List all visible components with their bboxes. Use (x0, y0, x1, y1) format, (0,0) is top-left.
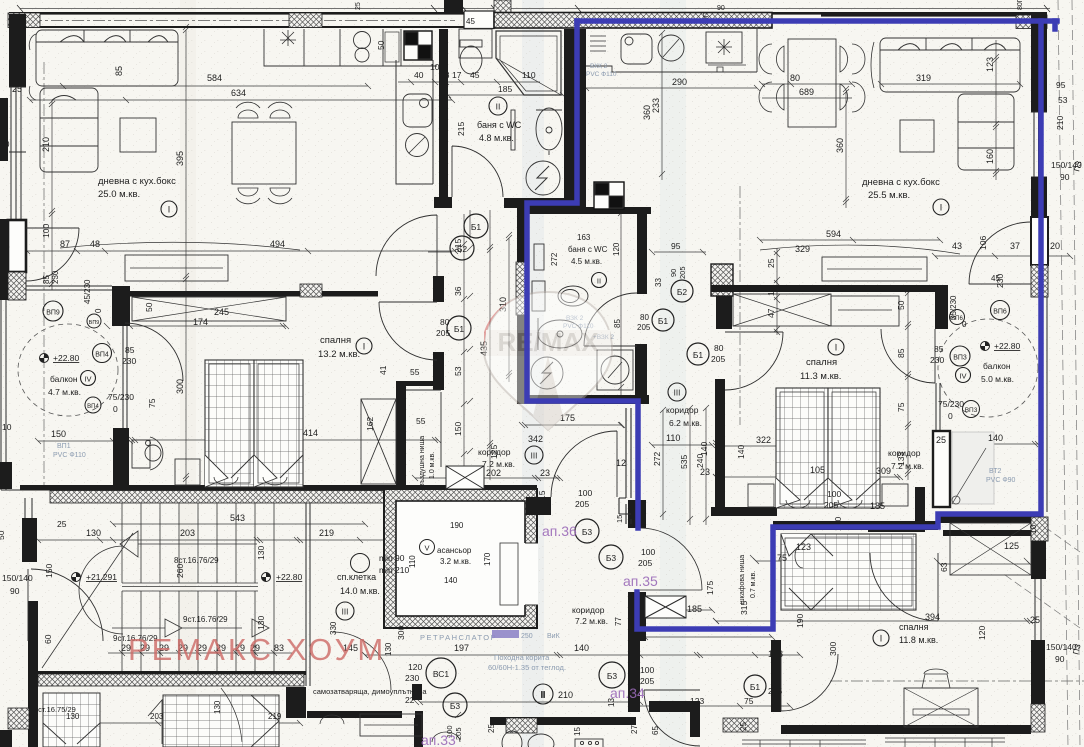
bathroom2 washer (531, 357, 563, 389)
bedroom11.3 balcony door (881, 329, 935, 383)
axis dashdot x740 (739, 186, 741, 425)
ap35 bathroom2 toilet (558, 286, 588, 306)
wall stub below ap34 entry (690, 711, 700, 737)
top outer dim line (20, 8, 1050, 10)
svg-text:205: 205 (637, 323, 651, 332)
chimney shaft 45 in top wall (464, 11, 494, 29)
svg-text:360: 360 (642, 105, 652, 120)
svg-text:min 210: min 210 (379, 565, 410, 575)
svg-text:75: 75 (777, 553, 787, 563)
left kitchen stove circles (354, 32, 371, 49)
vertical x846 360 (843, 89, 849, 208)
left kitchen side counter (396, 60, 433, 184)
svg-text:0: 0 (94, 308, 103, 313)
bedroom11.3 bottom wall left part (711, 507, 777, 516)
svg-text:0.7 м.кв.: 0.7 м.кв. (750, 571, 757, 598)
ap33 wall bottom left horizontal (307, 711, 402, 718)
svg-text:IV: IV (959, 372, 966, 381)
svg-text:PVC Ф90: PVC Ф90 (986, 477, 1016, 484)
bathroom2 bottom wall (517, 395, 649, 404)
svg-text:100: 100 (640, 665, 654, 675)
right wall hatch block y517 (1031, 517, 1048, 541)
ap33/34 bath top wall (490, 717, 636, 725)
top wall hatch block x300 (289, 13, 322, 28)
left edge block y462 (0, 462, 12, 489)
svg-text:дневна с кух.бокс: дневна с кух.бокс (862, 177, 940, 188)
right TV cabinet living (822, 257, 927, 281)
svg-text:14.0 м.кв.: 14.0 м.кв. (340, 586, 380, 596)
ap33 bath wall hatch (506, 718, 537, 733)
bathroom1 shower cabin (496, 31, 561, 95)
elevator inner rect (500, 543, 518, 605)
corridor right wall hatch pier (bedroom NW) (711, 264, 733, 296)
svg-text:95: 95 (671, 241, 681, 251)
ap34 desk (904, 688, 978, 727)
vertical x908 chain (905, 290, 911, 480)
svg-text:36: 36 (453, 286, 463, 296)
bathroom2 left wall lower (517, 315, 525, 404)
ap36 corridor wall notch (526, 497, 551, 515)
svg-text:ВиК: ВиК (547, 633, 561, 640)
svg-text:110: 110 (522, 70, 536, 80)
svg-text:15: 15 (537, 490, 547, 500)
svg-text:асансьор: асансьор (437, 546, 472, 555)
stairwell bottom wall (38, 671, 306, 675)
ap34 corridor wall vertical (628, 640, 640, 712)
lower floor door arc bottom left (221, 688, 242, 742)
svg-text:10: 10 (1028, 524, 1038, 534)
svg-text:75: 75 (744, 696, 754, 706)
vertical dims right corridor x663 x690 x706 (663, 408, 706, 525)
ap35 kitchen counter run (586, 29, 757, 72)
left coffee table (120, 118, 156, 152)
balcony left rail (1, 300, 20, 490)
svg-text:III: III (342, 608, 349, 617)
svg-text:100: 100 (41, 224, 51, 238)
right wall door jamb box (1031, 217, 1048, 265)
svg-text:185: 185 (498, 84, 512, 94)
air niche wall horizontal (396, 381, 434, 386)
svg-text:395: 395 (175, 151, 185, 166)
ap34 bedroom left wall (771, 640, 781, 712)
svg-text:41: 41 (378, 365, 388, 375)
svg-text:45: 45 (466, 17, 475, 26)
stairs 29 row line (108, 650, 292, 656)
svg-text:II: II (496, 102, 501, 112)
svg-text:25: 25 (936, 435, 946, 445)
svg-text:сп.клетка: сп.клетка (337, 572, 376, 582)
balcony left dashed ellipse (18, 324, 118, 416)
air niche duct x-box (446, 466, 484, 489)
svg-text:III: III (531, 452, 538, 461)
left kitchen stove checkered (404, 31, 432, 60)
svg-text:4.5 м.кв.: 4.5 м.кв. (571, 257, 602, 266)
svg-text:ВП4: ВП4 (87, 404, 99, 410)
dim 105-etc right corridor (787, 473, 871, 479)
ap33 door bottom (333, 632, 391, 690)
svg-text:110: 110 (666, 433, 680, 443)
living/bedroom wall continues to door (322, 291, 378, 297)
left wardrobe 245 (132, 297, 286, 321)
svg-text:80П: 80П (1017, 0, 1024, 10)
svg-text:V: V (424, 544, 429, 553)
bedroom11.3 bottom wall right part under blue (773, 521, 938, 530)
stairs upper flight treads (122, 503, 274, 671)
svg-text:ВП3: ВП3 (965, 407, 978, 414)
bathroom1 toilet (460, 46, 482, 74)
svg-text:90: 90 (1060, 172, 1070, 182)
vertical x509 310 (506, 235, 512, 382)
svg-text:203: 203 (180, 528, 195, 538)
right wall window (1031, 112, 1047, 177)
svg-text:3.2 м.кв.: 3.2 м.кв. (440, 557, 471, 566)
right wall window lower (1035, 579, 1041, 640)
ap34 right wall (1031, 640, 1045, 725)
svg-text:самозатваряща, димоуплътнена: самозатваряща, димоуплътнена (313, 687, 427, 696)
left kitchen star dishwasher (280, 30, 296, 46)
stair arrow down (112, 619, 242, 637)
svg-text:ВП1: ВП1 (57, 443, 71, 450)
svg-text:20: 20 (1050, 241, 1060, 251)
svg-text:272: 272 (652, 452, 662, 466)
svg-text:45: 45 (470, 70, 480, 80)
min labels stairs (351, 554, 370, 573)
svg-text:205: 205 (768, 686, 782, 696)
svg-text:ВП9: ВП9 (46, 310, 60, 317)
svg-text:53: 53 (453, 366, 463, 376)
svg-text:RE/MAX: RE/MAX (497, 327, 599, 357)
dim 123-75 lower right (753, 558, 915, 564)
svg-text:IV: IV (84, 375, 91, 384)
dim 185 y95 (445, 92, 566, 98)
ap33 bed pillow (148, 700, 162, 744)
svg-text:47: 47 (766, 308, 776, 318)
dim 185 right low (649, 607, 715, 613)
circle I living left (161, 201, 177, 217)
ap33 bed vertical (43, 693, 100, 747)
vertical x490 435 (487, 210, 493, 480)
svg-text:360: 360 (835, 138, 845, 153)
door circles (464, 214, 488, 238)
bathroom2 left wall (517, 207, 525, 317)
svg-text:272: 272 (550, 252, 559, 266)
svg-text:Б3: Б3 (606, 553, 617, 563)
top wall inner edge left section (24, 26, 464, 28)
dim 80-689 right table (759, 81, 855, 98)
svg-text:Б1: Б1 (454, 324, 465, 334)
svg-text:коридор: коридор (666, 405, 699, 415)
svg-text:215: 215 (456, 122, 466, 136)
svg-text:535: 535 (679, 455, 689, 469)
svg-text:25: 25 (355, 2, 362, 10)
vent circles right balcony (991, 301, 1010, 320)
svg-text:90: 90 (10, 586, 20, 596)
living/bedroom wall pier left (112, 286, 130, 326)
elevator labels (420, 540, 435, 555)
svg-text:203: 203 (150, 712, 164, 721)
svg-text:40: 40 (0, 139, 10, 149)
svg-text:205: 205 (711, 354, 725, 364)
svg-text:80: 80 (790, 73, 800, 83)
svg-text:+22.80: +22.80 (53, 353, 80, 363)
svg-text:22: 22 (405, 695, 415, 705)
corridor right dims y446 (649, 442, 715, 448)
neighbor wall bar upper left edge (0, 98, 8, 161)
svg-text:РЕТРАНСЛАТОР: РЕТРАНСЛАТОР (420, 633, 497, 642)
svg-text:48: 48 (90, 239, 100, 249)
svg-text:205: 205 (678, 266, 687, 279)
svg-text:шкафова ниша: шкафова ниша (739, 555, 746, 604)
left beds (205, 360, 303, 487)
svg-text:PVC Ф110: PVC Ф110 (53, 452, 86, 459)
fire door right stairhall (870, 553, 938, 621)
right wardrobe X (733, 294, 831, 326)
dim 140 right balcony (955, 441, 1041, 447)
svg-text:40: 40 (414, 70, 424, 80)
svg-text:230: 230 (405, 673, 419, 683)
left kitchen washer (406, 134, 429, 157)
svg-text:219: 219 (319, 528, 334, 538)
svg-text:90: 90 (1055, 654, 1065, 664)
dim 43-37-20 balcony top (932, 253, 1073, 259)
svg-text:100: 100 (641, 547, 655, 557)
bottom wall hatch strip (50, 491, 527, 504)
svg-text:0: 0 (948, 411, 953, 421)
svg-text:60/60Н-1.35 от теглод.: 60/60Н-1.35 от теглод. (488, 663, 566, 672)
balcony top edge lines (26, 286, 112, 290)
vent circles left balcony (43, 301, 63, 321)
svg-text:дневна с кух.бокс: дневна с кух.бокс (98, 176, 176, 187)
stairs lower flight treads (122, 591, 255, 671)
svg-text:230: 230 (51, 270, 60, 284)
dim 584 line (60, 83, 371, 89)
right dresser (831, 296, 899, 326)
svg-text:120: 120 (612, 242, 621, 256)
svg-text:балкон: балкон (50, 374, 78, 384)
svg-text:I: I (363, 342, 366, 352)
svg-text:85: 85 (125, 345, 135, 355)
svg-text:Б1: Б1 (658, 316, 669, 326)
svg-text:25: 25 (739, 722, 748, 731)
balcony window left thin lines (123, 325, 127, 428)
svg-text:130: 130 (256, 616, 266, 630)
stair arrow up (120, 531, 257, 557)
svg-text:РЕМАКС ХОУМ: РЕМАКС ХОУМ (128, 632, 386, 667)
svg-text:спалня: спалня (320, 335, 351, 346)
air niche label (419, 436, 426, 487)
bottom wall of upper apartments (20, 485, 537, 491)
bedroom left wall pier (716, 296, 732, 329)
svg-text:25: 25 (57, 519, 67, 529)
svg-text:205: 205 (436, 328, 450, 338)
svg-text:ВП3: ВП3 (953, 355, 967, 362)
scan streak 2 (522, 0, 544, 747)
dim 290 right kitchen (583, 85, 760, 91)
stairs winder half-circle (79, 546, 123, 634)
svg-text:4.8 м.кв.: 4.8 м.кв. (479, 133, 514, 143)
svg-text:77: 77 (614, 617, 623, 626)
svg-text:I: I (835, 343, 838, 353)
svg-text:37: 37 (1010, 241, 1020, 251)
ap34 bed (781, 534, 916, 610)
svg-text:300: 300 (828, 642, 838, 656)
right dining table (788, 39, 836, 127)
svg-text:II: II (541, 691, 545, 700)
svg-text:50: 50 (144, 302, 154, 312)
svg-text:баня с WC: баня с WC (477, 120, 522, 130)
svg-text:17: 17 (452, 70, 462, 80)
ap34 wardrobe X (950, 523, 1031, 575)
living25.5 balcony door right wall (969, 222, 1031, 284)
ap33 bath oval (528, 734, 554, 747)
svg-text:140: 140 (699, 442, 709, 456)
bathroom2 right wall lower pier (635, 344, 647, 404)
svg-text:543: 543 (230, 513, 245, 523)
balcony right dashed ellipse (938, 319, 1038, 417)
svg-text:75/230: 75/230 (938, 399, 964, 409)
svg-text:163: 163 (577, 233, 591, 242)
svg-text:170: 170 (483, 552, 492, 566)
elevator shaft walls hatched ring (384, 489, 537, 628)
svg-text:150/140: 150/140 (2, 573, 33, 583)
ap34 bedroom bottom wall (781, 725, 1031, 734)
elevator door gap (524, 543, 538, 605)
dim 394 lower right (713, 618, 1033, 624)
ap33 stove dots (575, 739, 603, 747)
left sofa chaise (40, 88, 98, 172)
top wall hatched section center (494, 13, 772, 29)
air niche thin edges (406, 390, 441, 467)
svg-text:Б1: Б1 (693, 350, 704, 360)
svg-text:ап.33: ап.33 (421, 732, 456, 747)
svg-text:230: 230 (122, 356, 136, 366)
bottom left corner block (0, 730, 12, 747)
svg-text:309: 309 (876, 466, 891, 476)
svg-text:634: 634 (231, 88, 246, 98)
bedroom wall stub near washbasin (113, 428, 129, 487)
svg-text:15: 15 (573, 727, 582, 736)
svg-text:13: 13 (440, 70, 450, 80)
top wall centerline (30, 20, 455, 22)
stairwell bottom wall corner (286, 687, 306, 718)
top edge block left of shaft (444, 0, 463, 14)
svg-text:25: 25 (115, 429, 125, 439)
ap34 bottom hatch left (723, 718, 758, 732)
ap33 bed horizontal (163, 695, 279, 747)
svg-text:300: 300 (175, 379, 185, 394)
svg-text:Походна корита: Походна корита (494, 653, 550, 662)
svg-text:105: 105 (810, 465, 825, 475)
stairwell left wall lower (28, 601, 38, 747)
svg-text:23: 23 (540, 468, 550, 478)
dashed diagonals bottom right (1005, 575, 1080, 628)
ap35 entry wall above door (628, 500, 646, 528)
svg-text:10: 10 (430, 62, 440, 72)
svg-text:210: 210 (558, 690, 573, 700)
svg-text:Б3: Б3 (582, 527, 593, 537)
neighbor wall bar lower left edge (0, 219, 8, 300)
svg-text:215: 215 (453, 239, 463, 253)
bathroom1 door (452, 146, 503, 197)
svg-text:25: 25 (1030, 615, 1040, 625)
right corridor thin partition (619, 408, 631, 524)
svg-text:11.8 м.кв.: 11.8 м.кв. (899, 635, 938, 645)
svg-text:35/230: 35/230 (949, 295, 958, 320)
ap34 corridor wall horizontal (649, 701, 700, 712)
svg-text:6.2 м.кв.: 6.2 м.кв. (669, 418, 702, 428)
stairhall left door (28, 569, 103, 641)
svg-text:245: 245 (214, 307, 229, 317)
svg-text:5.0 м.кв.: 5.0 м.кв. (981, 374, 1014, 384)
bedroom/balcony wall upper (935, 287, 948, 329)
svg-text:45: 45 (991, 274, 1000, 283)
left nightstand (175, 459, 200, 485)
ap34 chair (922, 669, 950, 688)
ap33 cabinet (360, 714, 422, 736)
svg-text:100: 100 (827, 489, 841, 499)
dim 594-329 right (757, 237, 943, 243)
svg-text:II: II (597, 277, 601, 286)
purple apartment labels (421, 523, 658, 747)
svg-text:въздушна ниша: въздушна ниша (419, 436, 426, 487)
svg-text:I: I (940, 203, 943, 213)
stairs landing rails (122, 583, 258, 591)
bathroom1 bottom wall left part (434, 197, 452, 208)
svg-text:ВП4: ВП4 (95, 352, 109, 359)
svg-text:4.7 м.кв.: 4.7 м.кв. (48, 387, 81, 397)
bottom bath toilet (502, 731, 522, 747)
right outer wall upper (1031, 14, 1047, 112)
svg-text:494: 494 (270, 239, 285, 249)
top wall outer edge (9, 12, 1047, 15)
svg-text:250: 250 (521, 633, 533, 640)
svg-text:1.0 м.кв.: 1.0 м.кв. (429, 452, 436, 479)
svg-text:160: 160 (985, 149, 995, 164)
ap34 right wall hatch (1031, 704, 1045, 732)
svg-text:130: 130 (213, 700, 222, 714)
left kitchen counter top run (264, 29, 437, 66)
svg-text:85: 85 (934, 344, 944, 354)
svg-text:80: 80 (714, 343, 724, 353)
svg-text:20: 20 (0, 242, 10, 252)
balcony door left wall (26, 228, 79, 281)
dim 87-48-494 (24, 248, 458, 254)
stairwell bottom hatch strip (38, 674, 304, 686)
svg-text:65: 65 (651, 726, 660, 735)
svg-text:25.0 м.кв.: 25.0 м.кв. (98, 189, 140, 200)
svg-text:85: 85 (114, 66, 124, 76)
svg-text:210: 210 (1055, 116, 1065, 130)
dim 174 (127, 323, 289, 329)
vertical x464 corridor chain (461, 214, 467, 485)
svg-text:87: 87 (60, 239, 70, 249)
svg-text:123: 123 (796, 542, 811, 552)
kitchen niche duct x-box ap34 (645, 596, 686, 618)
balcony right drain area (952, 432, 994, 504)
svg-text:50: 50 (896, 300, 906, 310)
vertical dim line x186 (183, 27, 189, 485)
svg-text:ВТ2: ВТ2 (989, 468, 1001, 475)
svg-text:спалня: спалня (806, 357, 837, 368)
vertical x996 123-160 (993, 40, 999, 180)
top wall hatch block far left (8, 13, 40, 28)
svg-text:120: 120 (977, 626, 987, 640)
bathroom1 wc tank box (459, 29, 492, 58)
svg-text:55: 55 (410, 367, 420, 377)
bottom dim y723 left (57, 720, 303, 726)
stairs dim 543 y524 (110, 521, 368, 527)
svg-text:322: 322 (756, 435, 771, 445)
